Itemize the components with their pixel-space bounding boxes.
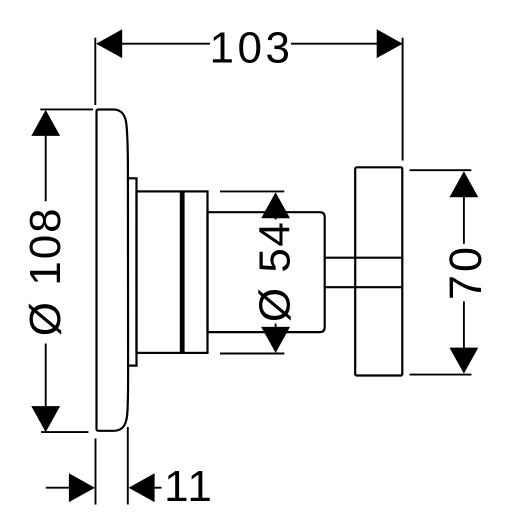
- extension line O54 top: [220, 190, 284, 192]
- stem top line: [325, 257, 403, 259]
- flange body: [137, 191, 208, 353]
- svg-text:103: 103: [210, 23, 294, 72]
- arrow 11 left: [69, 473, 95, 502]
- arrow 103 right: [377, 29, 403, 58]
- arrow O54 top: [261, 192, 290, 218]
- dimension line O108 upper segment: [45, 112, 47, 201]
- arrow 103 left: [96, 29, 122, 58]
- dimension line O108 lower segment: [45, 344, 47, 431]
- extension line 70 top: [410, 169, 472, 171]
- arrow O54 bottom: [261, 327, 290, 353]
- extension line O54 bottom: [220, 353, 284, 355]
- extension line O108 bottom: [41, 431, 88, 433]
- extension line 11 right: [127, 427, 129, 505]
- arrow O108 top: [31, 110, 60, 136]
- svg-text:Ø 108: Ø 108: [21, 206, 70, 336]
- sleeve ring: [127, 178, 137, 365]
- svg-text:Ø 54: Ø 54: [251, 221, 300, 322]
- dimension line 11 right tail: [155, 487, 162, 489]
- handle: [355, 167, 402, 375]
- extension line 103 right: [402, 38, 404, 161]
- flange joint line: [180, 191, 185, 353]
- stem bottom line: [325, 286, 403, 288]
- extension line O108 top: [40, 108, 93, 110]
- dimension line O54 upper segment: [275, 194, 277, 220]
- dimension line 11 left tail: [46, 487, 70, 489]
- svg-text:70: 70: [440, 244, 491, 300]
- extension line 103 left: [94, 38, 96, 105]
- extension line 11 left: [95, 439, 97, 505]
- dimension line 70 upper segment: [463, 173, 465, 244]
- arrow 11 right: [129, 473, 155, 502]
- dimension line 103 left segment: [97, 43, 210, 45]
- arrow O108 bottom: [31, 406, 60, 432]
- arrow 70 bottom: [450, 348, 479, 374]
- extension line 70 bottom: [410, 374, 472, 376]
- dimension line O54 lower segment: [275, 324, 277, 352]
- dimension line 70 lower segment: [463, 301, 465, 372]
- escutcheon dome profile: [97, 110, 129, 431]
- dimension line 103 right segment: [291, 43, 402, 45]
- arrow 70 top: [450, 171, 479, 197]
- svg-text:11: 11: [164, 462, 214, 511]
- cylinder Ø54 body: [208, 212, 325, 332]
